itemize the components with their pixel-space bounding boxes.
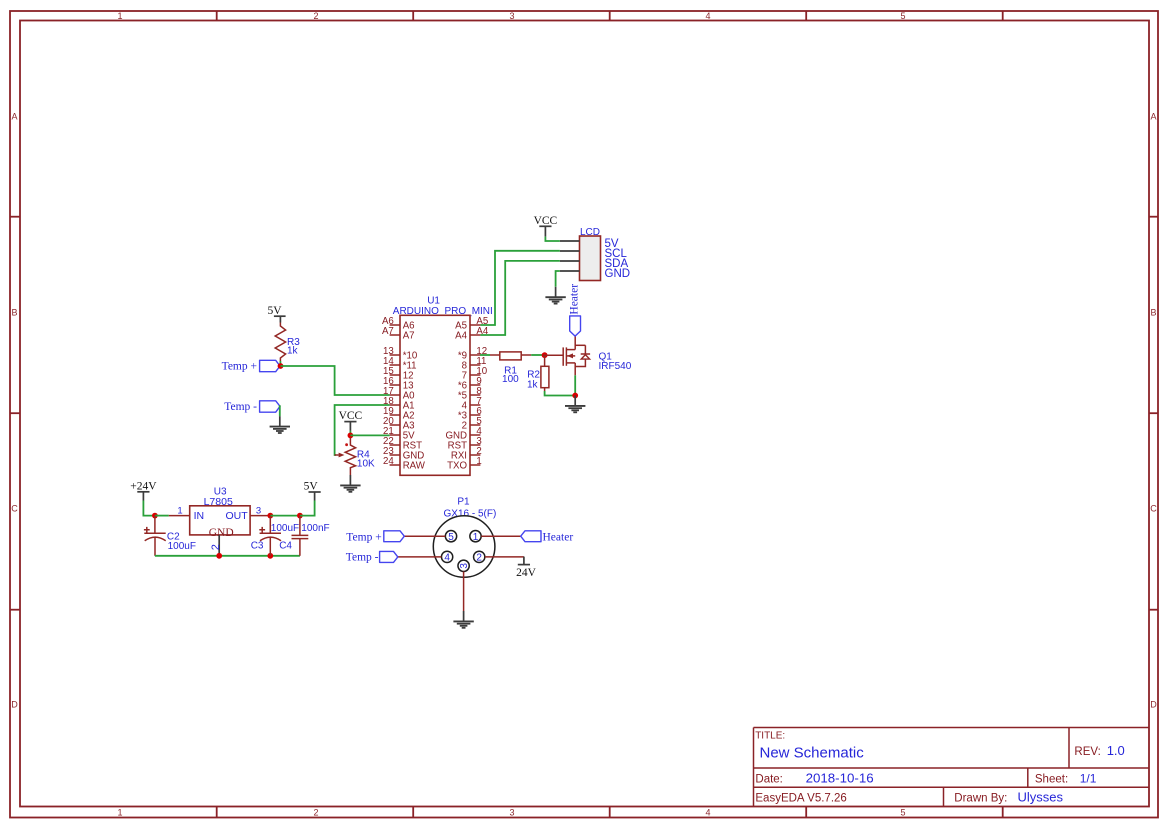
svg-text:GND: GND <box>209 527 234 539</box>
resistor R1 <box>500 352 521 385</box>
svg-text:2018-10-16: 2018-10-16 <box>806 771 874 786</box>
svg-text:Sheet:: Sheet: <box>1035 774 1068 786</box>
capacitor C3 100uF <box>251 516 299 556</box>
svg-text:4: 4 <box>705 11 710 21</box>
svg-text:VCC: VCC <box>339 410 363 422</box>
svg-text:100nF: 100nF <box>301 523 329 534</box>
wire Temp- to ground <box>279 406 280 416</box>
svg-text:Drawn By:: Drawn By: <box>954 793 1007 805</box>
svg-text:5V: 5V <box>267 305 282 317</box>
wire R2 to source node <box>545 391 576 396</box>
junction VCC / R4 / 5V pin node <box>348 433 354 439</box>
power flag 5V (R3) <box>267 305 285 323</box>
ruler letters left <box>11 112 18 710</box>
svg-text:Temp -: Temp - <box>346 552 379 564</box>
wire U3 OUT to C4 node <box>270 515 300 517</box>
ruler ticks right <box>1149 217 1158 610</box>
power flag VCC (R4) <box>339 410 363 431</box>
ruler ticks bottom <box>217 807 1003 818</box>
junction C3 / rail node <box>267 553 273 559</box>
ic U3 L7805 <box>169 487 270 556</box>
ruler ticks top <box>217 11 1003 21</box>
ruler numbers bottom <box>117 808 905 818</box>
potentiometer R4 <box>335 438 375 475</box>
svg-text:Ulysses: Ulysses <box>1018 790 1064 805</box>
wire gate node to Q1 gate <box>543 354 563 356</box>
svg-text:3: 3 <box>459 563 470 569</box>
svg-text:4: 4 <box>705 808 710 818</box>
junction C4 node <box>297 513 303 519</box>
svg-text:IRF540: IRF540 <box>599 361 632 372</box>
connector P1 GX16-5(F) <box>398 497 524 611</box>
capacitor C2 100uF <box>144 516 196 556</box>
svg-text:A4: A4 <box>455 330 467 341</box>
svg-text:C3: C3 <box>251 541 264 552</box>
wire U1 A5 to LCD pin 2 (SCL) <box>480 251 559 325</box>
svg-text:1k: 1k <box>287 346 299 357</box>
svg-text:1k: 1k <box>527 380 539 391</box>
capacitor C4 100nF <box>279 516 329 556</box>
wire ground rail C2 to C4 <box>155 555 300 557</box>
port Temp - (at P1) <box>346 551 398 563</box>
svg-text:1: 1 <box>117 11 122 21</box>
power flag +24V <box>130 481 157 501</box>
port Temp + (at P1) <box>346 531 404 544</box>
svg-text:OUT: OUT <box>226 510 249 522</box>
svg-text:REV:: REV: <box>1074 746 1100 758</box>
svg-text:4: 4 <box>444 553 450 564</box>
wire node to U1 5V pin <box>350 434 389 436</box>
wire U1 pin 12 to R1 <box>480 354 490 356</box>
wire Temp+ node to U1 A0 <box>281 366 390 395</box>
svg-text:2: 2 <box>313 808 318 818</box>
ground at Temp- <box>270 416 290 433</box>
svg-text:C4: C4 <box>279 541 292 552</box>
svg-text:Heater: Heater <box>543 531 574 543</box>
svg-text:D: D <box>11 700 18 710</box>
port Temp - (left) <box>224 401 280 413</box>
port Heater (top, pointing down) <box>569 284 581 336</box>
junction R1 / R2 / gate node <box>542 352 548 358</box>
svg-text:100uF: 100uF <box>271 523 299 534</box>
svg-text:C: C <box>1150 504 1157 514</box>
title block frame <box>754 728 1150 807</box>
svg-text:5: 5 <box>448 532 454 543</box>
ground below Q1 <box>565 396 585 413</box>
wire VCC to 5V pin node <box>349 431 351 435</box>
svg-text:P1: P1 <box>457 497 470 508</box>
svg-text:Date:: Date: <box>755 774 783 786</box>
port Temp + (left) <box>222 360 280 372</box>
svg-text:24V: 24V <box>516 567 537 579</box>
svg-text:5V: 5V <box>304 481 319 493</box>
svg-text:A7: A7 <box>382 326 394 337</box>
svg-text:D: D <box>1150 700 1157 710</box>
power flag VCC (LCD) <box>534 215 558 237</box>
port Heater (at P1, pointing left) <box>521 531 574 544</box>
svg-text:10K: 10K <box>357 458 375 469</box>
svg-text:GND: GND <box>605 268 631 280</box>
svg-text:Temp +: Temp + <box>222 361 257 373</box>
resistor R2 <box>527 355 549 391</box>
svg-text:A: A <box>11 112 17 122</box>
svg-text:2: 2 <box>476 553 482 564</box>
wire U1 A4 to LCD pin 3 (SDA) <box>480 261 559 335</box>
svg-text:+24V: +24V <box>130 481 157 493</box>
ground below P1 pin 3 <box>453 611 473 628</box>
svg-text:C: C <box>11 504 18 514</box>
svg-text:1/1: 1/1 <box>1080 772 1097 786</box>
wire LCD pin 4 (GND) to ground <box>556 271 560 287</box>
ruler letters right <box>1150 112 1157 710</box>
wire U1 A1 to R4 wiper <box>335 405 390 455</box>
wire +24V to U3 IN node <box>143 501 153 516</box>
ground below R4 <box>340 475 360 492</box>
ruler numbers top <box>117 11 905 21</box>
ruler ticks left <box>10 217 20 610</box>
svg-text:B: B <box>1150 308 1156 318</box>
junction OUT / C3 node <box>267 513 273 519</box>
svg-text:Temp +: Temp + <box>346 531 381 543</box>
svg-text:Temp -: Temp - <box>224 401 257 413</box>
svg-text:TXO: TXO <box>447 460 467 471</box>
svg-text:100: 100 <box>502 374 519 385</box>
svg-text:VCC: VCC <box>534 215 558 227</box>
junction C2 / IN node <box>152 513 158 519</box>
wire VCC to LCD pin 1 (5V) <box>545 237 559 241</box>
svg-text:RAW: RAW <box>403 460 426 471</box>
svg-text:A: A <box>1150 112 1156 122</box>
ground at LCD GND <box>545 287 565 304</box>
svg-text:IN: IN <box>194 510 205 522</box>
power flag 5V (U3 out) <box>304 481 321 501</box>
svg-text:24: 24 <box>383 456 394 467</box>
svg-text:EasyEDA V5.7.26: EasyEDA V5.7.26 <box>755 793 846 805</box>
svg-text:1: 1 <box>177 505 182 516</box>
svg-text:5: 5 <box>900 808 905 818</box>
wire node to U3 pin 1 <box>155 515 169 517</box>
transistor Q1 IRF540 <box>563 336 632 375</box>
svg-text:3: 3 <box>509 808 514 818</box>
junction R3 / Temp+ node <box>278 363 284 369</box>
svg-text:1: 1 <box>476 456 481 467</box>
svg-text:1: 1 <box>473 532 479 543</box>
power flag 24V (down) <box>516 557 537 580</box>
wire R1 to gate node <box>521 354 531 356</box>
svg-text:1.0: 1.0 <box>1107 743 1125 758</box>
svg-text:2: 2 <box>313 11 318 21</box>
junction source / R2 node <box>572 393 578 399</box>
ic U1 ARDUINO_PRO_MINI <box>382 296 493 476</box>
svg-text:3: 3 <box>509 11 514 21</box>
svg-text:A7: A7 <box>403 330 415 341</box>
svg-text:3: 3 <box>256 505 261 516</box>
svg-text:B: B <box>11 308 17 318</box>
wire Q1 source down <box>574 375 576 395</box>
svg-text:2: 2 <box>210 544 222 550</box>
connector LCD <box>560 227 630 281</box>
svg-text:1: 1 <box>117 808 122 818</box>
svg-text:100uF: 100uF <box>168 541 196 552</box>
svg-text:New Schematic: New Schematic <box>760 745 865 762</box>
svg-text:Heater: Heater <box>569 284 581 315</box>
svg-text:A4: A4 <box>476 326 488 337</box>
resistor R3 <box>275 323 300 367</box>
svg-text:TITLE:: TITLE: <box>755 731 785 742</box>
svg-text:5: 5 <box>900 11 905 21</box>
junction U3 GND / rail node <box>216 553 222 559</box>
wire C4 node to 5V flag <box>300 501 315 516</box>
